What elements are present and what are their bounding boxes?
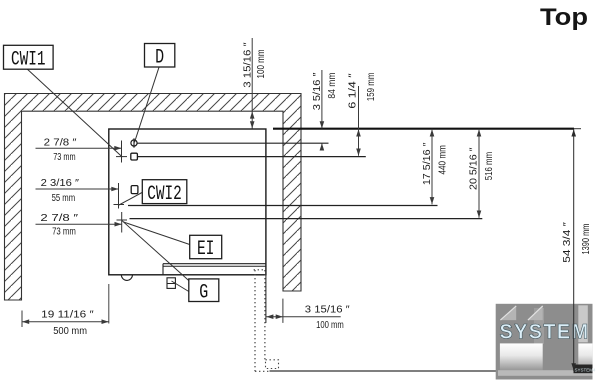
leader G (122, 221, 189, 281)
wire: service line B (from drain square) (138, 156, 366, 158)
connection point CWI1 (cross) (121, 141, 123, 163)
svg-text:2 7/8 ″: 2 7/8 ″ (44, 138, 77, 149)
svg-text:19 11/16 ″: 19 11/16 ″ (41, 310, 94, 321)
connection point CWI2 (cross) (118, 183, 120, 209)
svg-text:CWI2: CWI2 (147, 183, 182, 206)
svg-text:3 15/16 ″: 3 15/16 ″ (243, 42, 254, 88)
machine outline (109, 129, 266, 275)
svg-text:6 1/4 ″: 6 1/4 ″ (348, 73, 359, 109)
svg-text:73 mm: 73 mm (52, 226, 76, 237)
label EI (190, 235, 222, 258)
svg-text:3 5/16 ″: 3 5/16 ″ (312, 72, 323, 110)
connector D: circle-cross symbol (131, 140, 137, 146)
svg-text:84 mm: 84 mm (327, 73, 338, 99)
label G (189, 279, 219, 302)
svg-text:516 mm: 516 mm (484, 152, 495, 181)
dimension 2 7/8" 73mm (EI) (36, 223, 122, 225)
outlet G (small box below machine) (167, 278, 175, 289)
svg-text:CWI1: CWI1 (11, 48, 46, 71)
svg-text:2 3/16 ″: 2 3/16 ″ (41, 178, 80, 189)
dimension 2 3/16" 55mm (CWI2) (36, 188, 119, 190)
connector square CWI2 (131, 186, 138, 194)
drain outlet (dashed box) (266, 360, 279, 369)
leader EI (124, 222, 190, 245)
svg-text:1390 mm: 1390 mm (581, 224, 592, 255)
svg-text:Top: Top (540, 4, 588, 31)
connection point EI/G (cross) (121, 212, 123, 233)
dimension 17 5/16" 440mm (431, 129, 433, 205)
dimension 6 1/4" 159mm (358, 86, 360, 156)
drain path (dotted) (254, 270, 256, 371)
leader G (from outlet) (172, 281, 189, 292)
dimension 54 3/4" 1390mm (573, 129, 575, 371)
svg-text:55 mm: 55 mm (52, 193, 76, 204)
dimension 2 7/8" 73mm (CWI1) (36, 147, 122, 149)
machine front strip (163, 263, 266, 265)
svg-text:20 5/16 ″: 20 5/16 ″ (469, 147, 480, 190)
reference line (back plane, thick) (273, 128, 574, 130)
svg-text:54 3/4 ″: 54 3/4 ″ (562, 222, 573, 263)
dimension 3 15/16" 100mm (wall gap) (251, 38, 253, 129)
dimension 3 5/16" 84mm (321, 70, 323, 129)
dimension 20 5/16" 516mm (478, 129, 480, 218)
leader CWI1 (27, 69, 122, 157)
svg-text:500 mm: 500 mm (53, 326, 87, 337)
svg-text:EI: EI (197, 238, 215, 261)
wall (hatched U-shape: back wall, left wall, right wall) (5, 94, 302, 301)
label D (145, 44, 175, 68)
label CWI2 (142, 180, 187, 204)
svg-text:3 15/16 ″: 3 15/16 ″ (305, 305, 350, 316)
svg-text:100 mm: 100 mm (316, 320, 344, 331)
svg-text:440 mm: 440 mm (438, 145, 449, 174)
svg-text:100 mm: 100 mm (256, 49, 267, 78)
svg-text:17 5/16 ″: 17 5/16 ″ (422, 142, 433, 185)
dimension 3 15/16" 100mm (right gap) (282, 299, 284, 323)
svg-text:SYSTEM: SYSTEM (500, 321, 590, 344)
svg-text:SYSTEM4: SYSTEM4 (575, 367, 597, 372)
wire: service line A (from D connector) (137, 142, 328, 144)
leader CWI2 (119, 193, 142, 206)
extension of machine left edge (108, 284, 110, 324)
svg-text:73 mm: 73 mm (53, 152, 75, 163)
dimension 19 11/16" 500mm (21, 311, 23, 328)
caster (bottom-left semicircle) (121, 275, 132, 281)
extension of machine right edge (265, 275, 267, 323)
svg-text:G: G (199, 281, 208, 304)
svg-text:159 mm: 159 mm (366, 73, 377, 102)
svg-text:D: D (155, 46, 164, 69)
wire: service line C (CWI2 level) (128, 205, 438, 207)
floor/front reference line (bottom) (270, 370, 584, 372)
svg-text:2 7/8 ″: 2 7/8 ″ (40, 213, 78, 224)
leader D (135, 67, 160, 142)
watermark SYSTEM4 logo (496, 304, 596, 380)
label CWI1 (4, 45, 54, 69)
wire: service line D (EI level) (130, 218, 483, 220)
connector square on line B (131, 153, 138, 160)
